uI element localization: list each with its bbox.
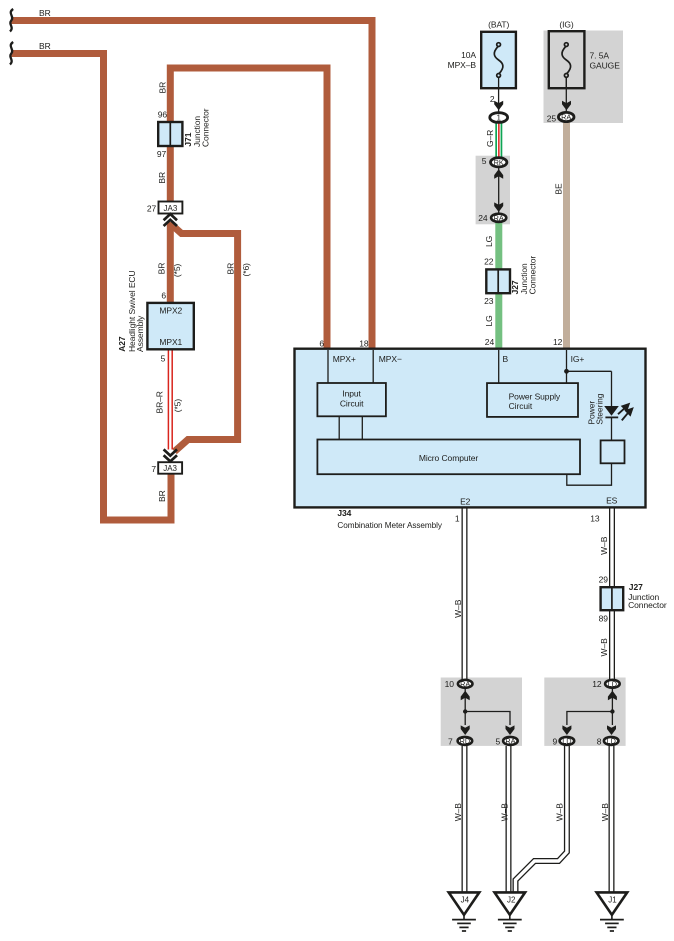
svg-text:W–B: W–B [599,638,609,657]
svg-text:7. 5A: 7. 5A [590,51,610,61]
svg-text:RA: RA [494,213,504,222]
svg-text:J4: J4 [461,896,470,905]
svg-text:(*5): (*5) [172,263,182,277]
svg-text:MPX+: MPX+ [333,354,356,364]
svg-text:Connector: Connector [201,108,211,147]
svg-text:J27: J27 [629,582,643,592]
svg-text:A27: A27 [117,336,127,352]
svg-text:10: 10 [445,679,455,689]
svg-text:W–B: W–B [453,803,463,822]
svg-text:10A: 10A [461,50,476,60]
svg-text:W–B: W–B [600,803,610,822]
svg-text:BR: BR [157,172,167,184]
svg-text:LG: LG [484,315,494,326]
svg-text:RA: RA [460,679,470,688]
svg-text:JA3: JA3 [163,464,177,473]
svg-text:J1: J1 [608,896,617,905]
svg-text:BR: BR [157,490,167,502]
svg-text:5: 5 [496,736,501,746]
svg-text:(*5): (*5) [172,399,182,413]
svg-text:MPX–B: MPX–B [448,60,477,70]
svg-text:LD: LD [607,737,616,746]
svg-text:96: 96 [158,110,168,120]
svg-text:MPX1: MPX1 [159,337,182,347]
svg-text:25: 25 [547,114,557,124]
svg-text:89: 89 [599,613,609,623]
svg-text:Assembly: Assembly [135,315,145,352]
svg-text:RA: RA [561,113,571,122]
svg-text:BR: BR [157,82,167,94]
svg-text:BR: BR [39,8,51,18]
svg-text:7: 7 [448,736,453,746]
svg-text:LG: LG [484,236,494,247]
svg-text:12: 12 [553,337,563,347]
svg-text:Steering: Steering [595,393,605,424]
svg-text:7: 7 [151,464,156,474]
svg-text:J34: J34 [337,508,351,518]
svg-text:(BAT): (BAT) [488,20,509,30]
svg-text:22: 22 [484,256,494,266]
svg-text:BE: BE [553,183,563,195]
svg-text:Combination Meter Assembly: Combination Meter Assembly [337,520,442,530]
svg-text:RK: RK [494,158,504,167]
svg-text:Circuit: Circuit [509,401,533,411]
svg-text:6: 6 [319,338,324,348]
svg-text:BR: BR [39,41,51,51]
svg-text:1: 1 [455,514,460,524]
svg-text:J2: J2 [507,896,516,905]
svg-text:Power Supply: Power Supply [509,391,561,401]
svg-text:B: B [503,354,509,364]
svg-text:27: 27 [147,204,157,214]
svg-text:24: 24 [478,213,488,223]
svg-text:BR–R: BR–R [155,391,165,413]
svg-text:Circuit: Circuit [340,398,364,408]
svg-text:13: 13 [590,514,600,524]
svg-text:RA: RA [505,737,515,746]
svg-text:E2: E2 [460,497,471,507]
svg-text:29: 29 [599,575,609,585]
svg-text:W–B: W–B [599,536,609,555]
svg-text:(*6): (*6) [241,263,251,277]
svg-text:JA3: JA3 [164,204,178,213]
svg-text:5: 5 [482,156,487,166]
svg-text:LD: LD [562,737,571,746]
svg-text:Connector: Connector [628,600,667,610]
svg-text:BR: BR [157,263,167,275]
svg-text:MPX−: MPX− [379,354,402,364]
svg-text:5: 5 [161,354,166,364]
svg-text:G–R: G–R [485,130,495,147]
svg-text:Input: Input [342,389,361,399]
svg-text:Micro Computer: Micro Computer [419,453,479,463]
svg-text:23: 23 [484,296,494,306]
svg-text:BR: BR [225,263,235,275]
svg-text:ES: ES [606,496,618,506]
svg-text:6: 6 [161,291,166,301]
svg-text:W–B: W–B [500,803,510,822]
svg-text:W–B: W–B [554,803,564,822]
svg-text:18: 18 [359,338,369,348]
svg-text:1: 1 [496,114,501,123]
svg-text:12: 12 [592,679,602,689]
svg-text:GAUGE: GAUGE [590,61,621,71]
svg-text:IG+: IG+ [571,354,585,364]
svg-text:9: 9 [552,736,557,746]
svg-text:8: 8 [597,736,602,746]
svg-text:Connector: Connector [528,256,538,295]
svg-text:(IG): (IG) [559,20,574,30]
svg-text:RD: RD [460,737,471,746]
svg-text:97: 97 [157,149,167,159]
svg-text:24: 24 [485,337,495,347]
svg-text:MPX2: MPX2 [159,306,182,316]
svg-text:2: 2 [490,94,495,104]
svg-text:LD: LD [608,679,617,688]
svg-text:W–B: W–B [453,599,463,618]
